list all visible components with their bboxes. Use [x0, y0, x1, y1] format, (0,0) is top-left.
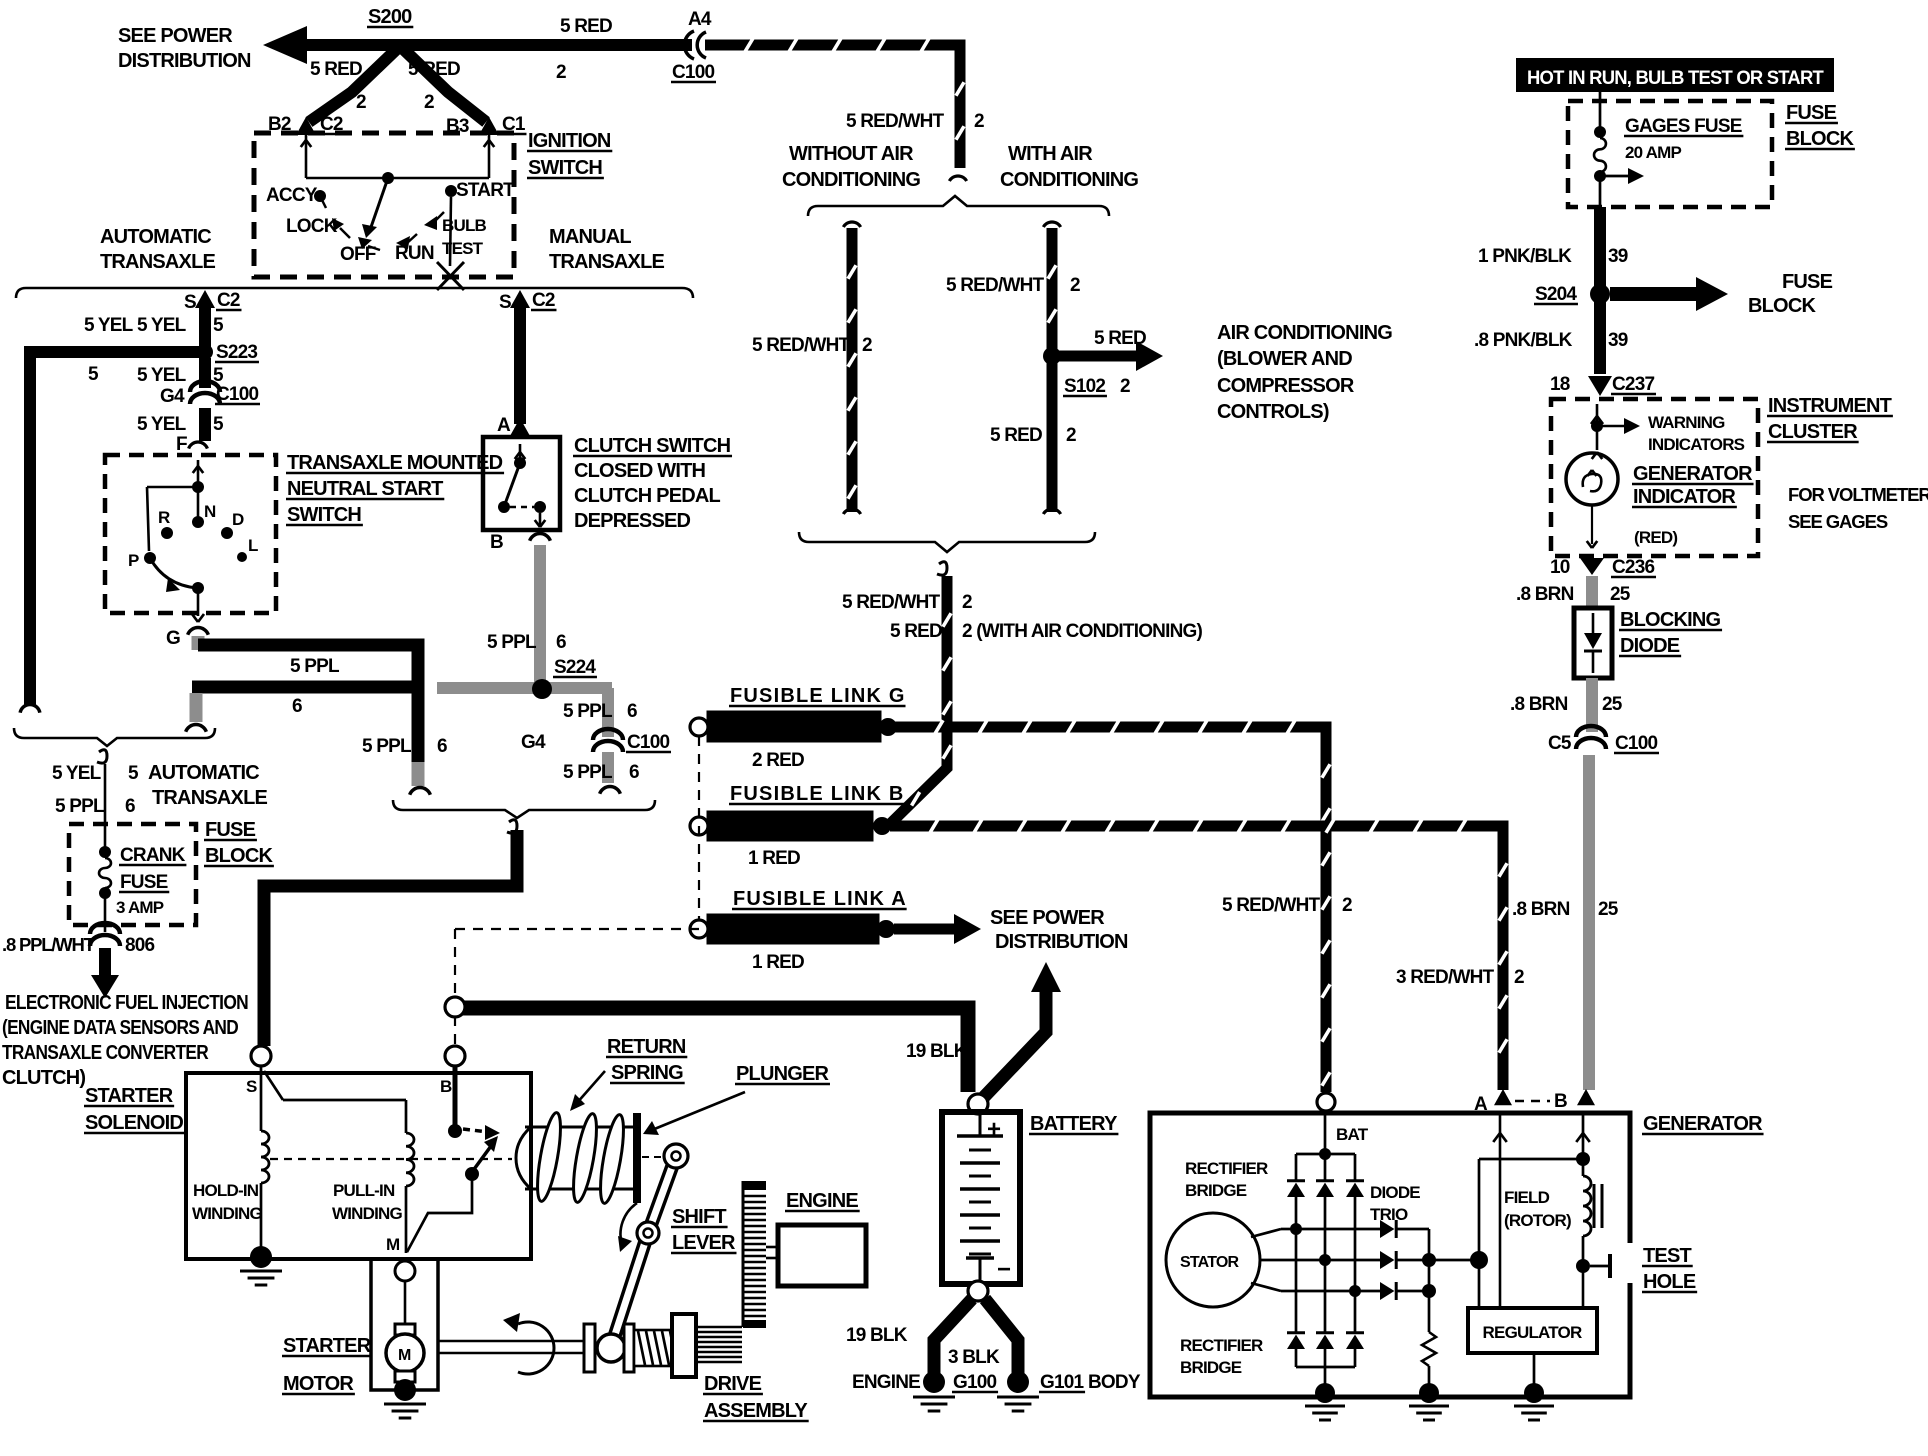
transaxle mounted neutral start switch dashed box: [105, 455, 276, 613]
junction circle on 19 BLK at solenoid B: [445, 997, 465, 1017]
svg-text:GENERATOR: GENERATOR: [1643, 1113, 1763, 1135]
fuse block dashed box (gages fuse): [1568, 101, 1772, 207]
svg-text:39: 39: [1608, 246, 1628, 267]
dashed link plunger to shift lever: [642, 1156, 662, 1158]
label WITHOUT AIR CONDITIONING: [782, 143, 920, 191]
label CLUTCH SWITCH CLOSED WITH CLUTCH PEDAL DEPRESSED: [573, 435, 732, 532]
hook right AC branch bottom: [1043, 509, 1060, 514]
wire 5 RED arrow to air conditioning: [1052, 341, 1163, 371]
wire .8 BRN C236 to blocking diode (gray): [1586, 576, 1598, 608]
curved arrow at shift lever pivot: [618, 1203, 637, 1252]
terminal B3 / connector C1: [446, 114, 526, 137]
svg-text:REGULATOR: REGULATOR: [1483, 1323, 1582, 1342]
svg-text:5 YEL: 5 YEL: [137, 365, 187, 386]
svg-text:C2: C2: [532, 290, 555, 311]
svg-text:(BLOWER AND: (BLOWER AND: [1217, 348, 1352, 370]
svg-text:DISTRIBUTION: DISTRIBUTION: [118, 50, 251, 72]
wire 5 PPL from G down-right (black then gray): [198, 636, 430, 795]
label MANUAL TRANSAXLE: [549, 226, 664, 273]
svg-text:FUSE: FUSE: [120, 872, 168, 893]
svg-text:C5: C5: [1548, 733, 1572, 754]
bracket air conditioning alternatives: [808, 196, 1109, 216]
arrow to return spring: [570, 1071, 605, 1111]
armature shaft: [438, 1341, 584, 1353]
svg-text:5 RED/WHT: 5 RED/WHT: [842, 592, 940, 613]
svg-text:5 RED/WHT: 5 RED/WHT: [752, 335, 850, 356]
svg-text:C237: C237: [1612, 374, 1654, 395]
label 5 YEL / 5 YEL / 5: [84, 315, 224, 336]
wire fusible link B to generator A (hatched): [890, 826, 1503, 1090]
label TEST HOLE: [1642, 1245, 1697, 1293]
svg-text:CLUTCH): CLUTCH): [2, 1067, 85, 1089]
svg-text:3 RED/WHT: 3 RED/WHT: [1396, 967, 1494, 988]
svg-text:FUSIBLE LINK A: FUSIBLE LINK A: [733, 888, 907, 910]
svg-text:TRANSAXLE: TRANSAXLE: [100, 251, 215, 273]
wire 3 BLK battery negative to G101: [985, 1299, 1018, 1374]
svg-text:SEE GAGES: SEE GAGES: [1788, 511, 1888, 532]
fusible link G: [690, 685, 906, 771]
svg-text:NEUTRAL START: NEUTRAL START: [287, 478, 443, 500]
blocking diode: [1574, 608, 1612, 678]
svg-text:2: 2: [556, 62, 566, 83]
contact D: [221, 510, 244, 539]
svg-text:CLUTCH PEDAL: CLUTCH PEDAL: [574, 485, 721, 507]
svg-text:G100: G100: [953, 1372, 997, 1393]
label 5 RED/WHT 2 (right branch): [946, 275, 1080, 296]
solenoid switch contacts: [407, 1067, 500, 1252]
wire 5 RED S200 to ignition B3: [398, 44, 486, 122]
svg-text:S102: S102: [1064, 376, 1105, 397]
svg-text:5 YEL: 5 YEL: [137, 315, 187, 336]
starter motor box: [371, 1259, 438, 1390]
dashed line between A and B terminals: [1515, 1100, 1550, 1102]
terminal F: [176, 434, 207, 455]
wire 19 BLK solenoid B to battery positive: [462, 1008, 968, 1092]
label INSTRUMENT CLUSTER: [1767, 395, 1893, 443]
svg-text:GAGES FUSE: GAGES FUSE: [1625, 116, 1742, 137]
wire battery positive to power distribution (arrow up): [983, 962, 1061, 1098]
svg-text:18: 18: [1550, 374, 1570, 395]
svg-text:19 BLK: 19 BLK: [906, 1041, 968, 1062]
svg-text:1 PNK/BLK: 1 PNK/BLK: [1478, 246, 1572, 267]
plunger end plate: [633, 1113, 641, 1203]
svg-text:1 RED: 1 RED: [748, 848, 800, 869]
wire START to bracket with X: [437, 197, 464, 290]
label 5 YEL 5 AUTOMATIC TRANSAXLE: [52, 762, 267, 809]
svg-text:TEST: TEST: [1643, 1245, 1691, 1267]
label .8 BRN 25: [1516, 584, 1631, 605]
regulator: [1468, 1308, 1597, 1390]
svg-text:FUSIBLE LINK G: FUSIBLE LINK G: [730, 685, 906, 707]
engine coupling: [766, 1247, 778, 1258]
label GENERATOR INDICATOR: [1632, 463, 1754, 508]
shift lever ball joint: [597, 1334, 625, 1362]
resistor to ground: [1422, 1291, 1436, 1390]
generator internal grounds: [1305, 1383, 1554, 1420]
svg-text:COMPRESSOR: COMPRESSOR: [1217, 375, 1355, 397]
svg-text:G4: G4: [160, 386, 185, 407]
wire gray S224 horizontal run: [437, 682, 612, 694]
wire .8 PNK/BLK S204 to C237: [1594, 300, 1606, 374]
label HOLD-IN WINDING: [192, 1181, 263, 1223]
label ELECTRONIC FUEL INJECTION ...: [2, 992, 248, 1089]
svg-text:BLOCKING: BLOCKING: [1620, 609, 1721, 631]
svg-text:CONTROLS): CONTROLS): [1217, 401, 1329, 423]
wire into warning indicators splice: [1591, 404, 1640, 450]
connector S C2 (automatic): [184, 290, 241, 313]
svg-text:GENERATOR: GENERATOR: [1633, 463, 1753, 485]
svg-text:START: START: [456, 180, 515, 201]
svg-text:CLUTCH SWITCH: CLUTCH SWITCH: [574, 435, 731, 457]
svg-text:L: L: [248, 536, 258, 555]
svg-text:BAT: BAT: [1336, 1125, 1369, 1144]
drive screw (hatched): [634, 1330, 677, 1366]
svg-text:SEE POWER: SEE POWER: [118, 25, 233, 47]
svg-text:2: 2: [962, 592, 972, 613]
svg-text:N: N: [204, 502, 216, 521]
svg-text:ACCY: ACCY: [266, 185, 318, 206]
label .8 PNK/BLK 39: [1474, 330, 1628, 351]
crank fuse element: [99, 846, 111, 932]
svg-text:SPRING: SPRING: [611, 1062, 683, 1084]
svg-text:S: S: [184, 292, 196, 313]
test hole tap: [1590, 1254, 1610, 1278]
svg-text:ENGINE: ENGINE: [852, 1372, 920, 1393]
svg-text:6: 6: [629, 762, 639, 783]
hook left AC branch bottom: [843, 509, 860, 514]
svg-text:S223: S223: [216, 342, 257, 363]
svg-text:2: 2: [1120, 376, 1130, 397]
svg-text:G101: G101: [1040, 1372, 1085, 1393]
connector C5 C100 (in-line): [1548, 726, 1659, 754]
pull-in winding: [264, 1071, 414, 1253]
svg-text:A4: A4: [688, 9, 712, 30]
label TRANSAXLE MOUNTED NEUTRAL START SWITCH: [286, 452, 504, 526]
contact P: [128, 551, 156, 570]
svg-text:2 (WITH AIR CONDITIONING): 2 (WITH AIR CONDITIONING): [962, 621, 1202, 642]
label STARTER MOTOR: [282, 1335, 372, 1395]
svg-text:A: A: [1474, 1094, 1488, 1115]
svg-text:MANUAL: MANUAL: [549, 226, 631, 248]
label RECTIFIER BRIDGE (bottom): [1180, 1336, 1263, 1377]
label .8 BRN 25 (below diode): [1510, 694, 1623, 715]
connector G4 C100 (right): [521, 729, 671, 753]
svg-text:DRIVE: DRIVE: [704, 1373, 762, 1395]
terminal S starter solenoid: [246, 1046, 271, 1096]
contact L: [237, 536, 258, 562]
label SEE POWER DISTRIBUTION (fusible link A): [990, 907, 1128, 953]
wire 5 YEL S223 to left run: [30, 352, 205, 706]
svg-text:5 YEL: 5 YEL: [137, 414, 187, 435]
svg-text:FUSE: FUSE: [1782, 271, 1833, 293]
svg-text:25: 25: [1610, 584, 1631, 605]
label GAGES FUSE 20 AMP: [1624, 116, 1743, 162]
svg-text:SWITCH: SWITCH: [528, 157, 602, 179]
label 5 RED/WHT 2 (left branch): [752, 335, 872, 356]
connector S C2 (manual): [499, 290, 556, 313]
label 5 PPL 6 above crank fuse: [55, 796, 135, 817]
label CRANK FUSE 3 AMP: [116, 845, 186, 917]
svg-text:5 RED/WHT: 5 RED/WHT: [946, 275, 1044, 296]
label 5 PPL 6 (clutch wire): [487, 632, 566, 653]
svg-text:SHIFT: SHIFT: [672, 1206, 726, 1228]
wire 19 BLK battery negative to G100: [934, 1299, 972, 1374]
label 5 RED 2 (below S102): [990, 425, 1076, 446]
svg-text:AIR CONDITIONING: AIR CONDITIONING: [1217, 322, 1392, 344]
svg-text:5 RED: 5 RED: [1094, 328, 1146, 349]
ignition contact RUN: [395, 234, 434, 264]
svg-text:S204: S204: [1535, 284, 1577, 305]
svg-text:+: +: [987, 1116, 1001, 1143]
arrow S204 to fuse block: [1610, 277, 1728, 311]
drive collar: [624, 1324, 634, 1372]
label STARTER SOLENOID: [84, 1085, 185, 1134]
svg-text:806: 806: [125, 935, 155, 956]
connector C236 pin 10: [1550, 557, 1656, 578]
connector C237 pin 18: [1550, 374, 1656, 396]
contact R: [158, 508, 173, 539]
svg-text:HOLE: HOLE: [1643, 1271, 1696, 1293]
svg-text:S: S: [246, 1077, 257, 1096]
svg-text:C236: C236: [1612, 557, 1654, 578]
svg-text:C100: C100: [216, 384, 258, 405]
battery positive terminal: [968, 1094, 988, 1114]
svg-text:FUSE: FUSE: [1786, 102, 1837, 124]
ground G101 body: [997, 1371, 1141, 1411]
splice S200: [367, 6, 413, 28]
clutch switch box: [483, 437, 560, 530]
svg-text:5: 5: [88, 364, 99, 385]
svg-text:B: B: [490, 532, 503, 553]
starter solenoid box: [186, 1073, 531, 1259]
svg-text:S224: S224: [554, 657, 596, 678]
svg-text:(ENGINE DATA SENSORS AND: (ENGINE DATA SENSORS AND: [2, 1017, 238, 1039]
svg-text:PLUNGER: PLUNGER: [736, 1063, 830, 1085]
svg-text:5 RED: 5 RED: [560, 16, 612, 37]
svg-text:A: A: [497, 415, 511, 436]
svg-text:G4: G4: [521, 732, 546, 753]
hook right AC branch: [1043, 222, 1060, 227]
wire .8 BRN C100 to generator B (gray): [1583, 755, 1595, 1090]
svg-text:TRANSAXLE: TRANSAXLE: [549, 251, 664, 273]
label SHIFT LEVER: [671, 1206, 736, 1254]
wire 5 RED S102 down: [1047, 360, 1058, 512]
gages fuse element: [1594, 92, 1644, 207]
wire 5 PPL bracket to starter S terminal: [264, 830, 517, 1046]
svg-text:6: 6: [627, 701, 637, 722]
wire 5 YEL ignition S to clutch switch A: [514, 303, 526, 424]
svg-text:STATOR: STATOR: [1180, 1254, 1240, 1271]
label 5 RED/WHT 2: [842, 592, 972, 613]
svg-text:TRANSAXLE CONVERTER: TRANSAXLE CONVERTER: [2, 1042, 209, 1064]
svg-text:6: 6: [556, 632, 566, 653]
svg-text:S200: S200: [368, 6, 412, 28]
break squiggle below bracket: [507, 820, 517, 833]
svg-text:5 RED/WHT: 5 RED/WHT: [846, 111, 944, 132]
svg-text:10: 10: [1550, 557, 1570, 578]
field rotor circuit: [1479, 1113, 1602, 1308]
svg-text:6: 6: [292, 696, 302, 717]
battery: [942, 1112, 1020, 1284]
svg-text:BLOCK: BLOCK: [205, 845, 273, 867]
svg-text:BRIDGE: BRIDGE: [1185, 1181, 1247, 1200]
svg-text:5 YEL: 5 YEL: [52, 763, 102, 784]
svg-text:SWITCH: SWITCH: [287, 504, 361, 526]
svg-text:F: F: [176, 434, 187, 455]
ignition contact BULB TEST: [424, 212, 487, 258]
wire 5 RED S200 to ignition B2: [309, 44, 402, 122]
break squiggle left bracket: [97, 750, 107, 763]
svg-text:AUTOMATIC: AUTOMATIC: [100, 226, 211, 248]
svg-text:CONDITIONING: CONDITIONING: [1000, 169, 1138, 191]
ignition contact LOCK: [286, 216, 350, 238]
generator BAT terminal: [1317, 1093, 1369, 1144]
wire .8 BRN blocking diode to C100 (gray): [1586, 678, 1598, 732]
svg-text:CLUSTER: CLUSTER: [1768, 421, 1858, 443]
label 5 YEL / 5 below S223: [137, 365, 224, 386]
svg-text:2: 2: [1070, 275, 1080, 296]
svg-text:6: 6: [437, 736, 447, 757]
svg-text:WITH AIR: WITH AIR: [1008, 143, 1093, 165]
svg-text:WINDING: WINDING: [332, 1204, 403, 1223]
terminal B generator: [1554, 1089, 1595, 1142]
bracket joining 5 PPL runs: [393, 800, 655, 818]
wire 5 YEL C100 to F: [199, 358, 211, 388]
svg-text:M: M: [398, 1347, 411, 1364]
contact N: [192, 502, 216, 528]
ignition contact ACCY: [266, 185, 326, 208]
svg-text:6: 6: [125, 796, 135, 817]
svg-text:2: 2: [1066, 425, 1076, 446]
label RETURN SPRING: [606, 1036, 687, 1084]
label AUTOMATIC TRANSAXLE: [100, 226, 215, 273]
arrow to electronic fuel injection: [91, 948, 119, 998]
svg-text:B: B: [440, 1077, 452, 1096]
svg-text:TRANSAXLE: TRANSAXLE: [152, 787, 267, 809]
plunger cylinder: [516, 1127, 634, 1189]
arrow fusible link A to power distribution: [894, 914, 981, 944]
battery plates: [960, 1150, 1000, 1284]
battery negative terminal: [968, 1281, 988, 1301]
svg-text:SEE POWER: SEE POWER: [990, 907, 1105, 929]
mechanical dashed line solenoid to plunger: [270, 1158, 512, 1160]
label FIELD (ROTOR): [1504, 1188, 1571, 1230]
svg-text:CLOSED WITH: CLOSED WITH: [574, 460, 706, 482]
svg-text:DIODE: DIODE: [1370, 1183, 1420, 1202]
neutral start switch internals: [147, 460, 204, 551]
wire 5 RED/WHT without AC (hatched): [847, 228, 858, 512]
label 5 PPL 6 (vertical run): [362, 736, 447, 757]
svg-text:2 RED: 2 RED: [752, 750, 804, 771]
connector 806 (in-line arcs): [90, 923, 120, 946]
wire fusible link G to generator BAT (hatched): [895, 727, 1326, 1092]
svg-text:5: 5: [128, 763, 139, 784]
clutch switch internals: [498, 444, 546, 527]
splice S224: [532, 657, 597, 699]
svg-text:.8 PNK/BLK: .8 PNK/BLK: [1474, 330, 1573, 351]
svg-text:5 PPL: 5 PPL: [487, 632, 537, 653]
break squiggle below AC bracket: [937, 562, 947, 575]
terminal G: [166, 628, 208, 649]
svg-text:WARNING: WARNING: [1648, 413, 1725, 432]
svg-text:5 PPL: 5 PPL: [563, 762, 613, 783]
svg-text:IGNITION: IGNITION: [528, 130, 611, 152]
svg-text:S: S: [499, 292, 511, 313]
starter motor ground: [384, 1379, 426, 1418]
svg-text:C100: C100: [627, 732, 669, 753]
wire 5 RED/WHT to fusible link B (hatched): [890, 576, 947, 824]
svg-text:R: R: [158, 508, 170, 527]
svg-text:G: G: [166, 628, 180, 649]
generator box: [1150, 1113, 1630, 1397]
terminal B starter solenoid: [440, 1046, 465, 1096]
svg-text:ELECTRONIC FUEL INJECTION: ELECTRONIC FUEL INJECTION: [5, 992, 248, 1014]
svg-text:BLOCK: BLOCK: [1748, 295, 1816, 317]
svg-text:FIELD: FIELD: [1504, 1188, 1550, 1207]
svg-text:−: −: [997, 1256, 1011, 1283]
drive pinion (splined): [696, 1327, 742, 1362]
hook left AC branch: [843, 222, 860, 227]
svg-text:5: 5: [213, 315, 224, 336]
svg-text:CONDITIONING: CONDITIONING: [782, 169, 920, 191]
svg-text:FOR VOLTMETER: FOR VOLTMETER: [1788, 484, 1928, 505]
svg-text:5: 5: [213, 414, 224, 435]
svg-text:RUN: RUN: [395, 243, 434, 264]
svg-text:INDICATORS: INDICATORS: [1648, 435, 1745, 454]
label WITH AIR CONDITIONING: [1000, 143, 1138, 191]
label FUSE BLOCK (top right): [1785, 102, 1855, 150]
svg-text:BATTERY: BATTERY: [1030, 1113, 1118, 1135]
svg-text:5 PPL: 5 PPL: [55, 796, 105, 817]
rotation arrow on shaft: [503, 1313, 554, 1374]
label RECTIFIER BRIDGE (top): [1185, 1159, 1268, 1200]
wire 5 PPL S224 to C100 (gray): [600, 688, 621, 794]
bracket AC rejoin: [799, 532, 1095, 552]
svg-text:39: 39: [1608, 330, 1628, 351]
banner HOT IN RUN, BULB TEST OR START: [1516, 58, 1834, 92]
generator indicator bulb: [1566, 452, 1618, 548]
svg-text:25: 25: [1602, 694, 1623, 715]
wire 5 PPL automatic branch to left bracket: [186, 687, 413, 732]
svg-text:STARTER: STARTER: [85, 1085, 174, 1107]
label FOR VOLTMETER SEE GAGES: [1788, 484, 1928, 532]
label BLOCKING DIODE: [1619, 609, 1722, 657]
svg-text:C100: C100: [672, 62, 714, 83]
dashed link between fusible link terminals: [698, 736, 700, 920]
svg-text:5 PPL: 5 PPL: [362, 736, 412, 757]
ignition switch internal wiring: [301, 135, 495, 238]
svg-text:.8 PPL/WHT: .8 PPL/WHT: [2, 934, 96, 955]
label .8 BRN 25 (generator B wire): [1512, 899, 1619, 920]
wire to terminal G: [192, 588, 204, 622]
ignition contact START: [445, 180, 515, 201]
svg-text:FUSIBLE LINK B: FUSIBLE LINK B: [730, 783, 905, 805]
svg-text:INSTRUMENT: INSTRUMENT: [1768, 395, 1892, 417]
svg-text:WITHOUT AIR: WITHOUT AIR: [789, 143, 914, 165]
fusible link B: [690, 783, 905, 869]
hold-in winding: [261, 1067, 269, 1256]
crank fuse dashed box (fuse block): [69, 824, 196, 925]
svg-text:5 PPL: 5 PPL: [563, 701, 613, 722]
svg-text:5 RED/WHT: 5 RED/WHT: [1222, 895, 1320, 916]
terminal A clutch switch: [497, 415, 530, 436]
label WARNING INDICATORS: [1648, 413, 1745, 454]
label DRIVE ASSEMBLY: [703, 1373, 809, 1422]
label 5 RED 2 (WITH AIR CONDITIONING): [890, 621, 1202, 642]
return spring coils: [533, 1111, 628, 1205]
svg-text:BODY: BODY: [1088, 1372, 1141, 1393]
svg-text:25: 25: [1598, 899, 1619, 920]
